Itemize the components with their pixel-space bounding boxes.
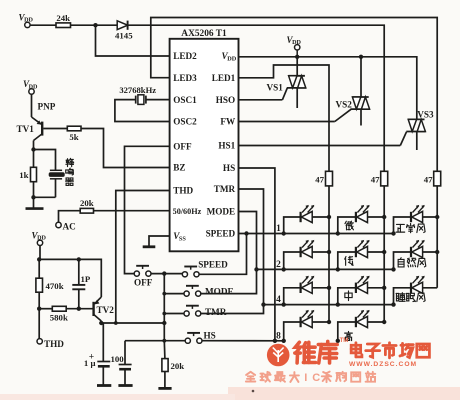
LED row 1 column 2 [338,217,384,234]
svg-text:SS: SS [179,235,186,242]
label 蜂鸣器 (vertical) [66,158,74,166]
wire TV2 collector to switch common bus [101,322,164,324]
pushbutton switch TMR [184,311,189,316]
capacitor 1u electrolytic [101,322,103,324]
svg-text:SPEED: SPEED [198,260,228,270]
svg-text:MODE: MODE [207,207,236,217]
wire column 3 down [436,186,438,288]
resistor 20k (AC input) [80,208,93,213]
watermark logo circle [267,344,290,367]
svg-text:SPEED: SPEED [206,229,236,239]
resistor 580k [39,308,52,310]
svg-text:47: 47 [315,174,324,184]
label 高 [345,331,353,340]
node A junction [93,23,97,27]
svg-text:TV2: TV2 [97,305,115,315]
LED row 1 column 3 [394,217,438,234]
node VS1 anode junction [295,55,299,59]
svg-text:FW: FW [220,117,236,127]
resistor 20k (pulldown) [163,341,166,359]
node 470k/580k junction [37,307,41,311]
ground (VSS pin) [149,236,170,246]
wire diode cathode to LED column 2 (node B) [128,25,385,171]
terminal AC [56,222,61,227]
svg-text:50/60Hz: 50/60Hz [173,207,202,216]
svg-text:WWW.DZSC.COM: WWW.DZSC.COM [349,361,417,368]
LED row 2 column 1 [284,252,329,269]
svg-text:LED2: LED2 [173,51,197,61]
node OFF-right / common bus junction [151,273,182,275]
power terminal VDD top-left [25,22,30,27]
power terminal VDD (buzzer section) [29,89,34,94]
svg-text:PNP: PNP [38,102,56,112]
wire column 1 down [328,186,330,322]
svg-text:47: 47 [424,174,433,184]
capacitor 100 [124,341,126,365]
ground (20k) [158,387,171,390]
wire TV1 base to 5k [43,128,67,130]
watermark text 全球最大IC采购网站 [246,372,255,382]
node TV2 collector junction [99,321,103,325]
wire TMR switch to row 4 node [201,305,264,314]
svg-text:I C: I C [304,372,321,384]
svg-text:DD: DD [29,84,38,90]
ground (100 cap) [118,384,132,387]
ground (buzzer) [33,197,35,208]
svg-text:VS1: VS1 [267,83,284,93]
LED row 4 column 3 [394,288,438,305]
triac VS1 [296,57,298,76]
svg-text:HS: HS [204,330,216,340]
svg-text:47: 47 [371,174,380,184]
LED row 4 column 1 [284,288,329,305]
svg-text:THD: THD [44,339,64,349]
svg-text:DD: DD [37,236,46,242]
svg-text:TMR: TMR [205,307,227,317]
wire IC VDD pin to rail [239,56,417,58]
svg-text:24k: 24k [56,13,70,23]
svg-text:4145: 4145 [115,31,133,41]
wire IC HSO pin to VS1 gate [239,99,283,101]
IC U1 AX5206 T1 body [170,39,239,252]
resistor 470k [38,259,40,278]
svg-text:AX5206 T1: AX5206 T1 [181,29,227,39]
node row4/TMR junction [261,302,265,306]
ground (1u cap) [97,384,111,387]
svg-text:LED3: LED3 [173,73,197,83]
wire IC HS pin down [239,168,275,341]
power terminal VDD (rail) [295,45,300,50]
svg-text:580k: 580k [50,313,68,323]
resistor 47 (column 2) [381,171,388,186]
wire HS switch into row 8 [202,340,284,342]
LED row 2 column 2 [338,252,384,269]
node TV1 collector junction [31,147,35,151]
wire row 4 [284,304,394,306]
svg-text:OSC1: OSC1 [173,95,197,105]
svg-text:2: 2 [276,260,281,270]
buzzer (piezo) [50,169,62,171]
node row8/HS junction [273,339,277,343]
svg-text:20k: 20k [80,198,94,208]
label 微 [345,221,353,230]
wire 5k to IC pin BZ [81,129,170,168]
LED row 2 column 3 [394,252,438,269]
wire MODE switch to row 2 node [201,269,257,293]
wire IC SPEED pin to row 1 [239,233,284,235]
svg-text:8: 8 [276,331,281,341]
wire row 4 [264,304,284,306]
svg-text:AC: AC [63,222,76,232]
svg-text:HSO: HSO [216,95,235,105]
switch common bus [163,274,165,341]
resistor 24k [56,23,71,28]
svg-text:OFF: OFF [134,277,153,287]
wire VDD to 24k resistor [30,24,56,26]
svg-text:BZ: BZ [173,163,185,173]
svg-text:TM: TM [340,337,349,344]
scan speck [252,390,255,393]
triac VS3 [408,118,425,120]
svg-text:LED1: LED1 [212,73,236,83]
svg-text:1k: 1k [19,170,28,180]
svg-text:MODE: MODE [205,287,234,297]
wire IC FW pin to VS2 gate [239,121,335,123]
wire IC THD pin down to TV2 collector net [116,191,170,324]
capacitor 1P [78,259,80,284]
wire IC TMR pin down [239,189,264,305]
svg-text:TMR: TMR [214,184,236,194]
transistor TV1 PNP [41,122,43,136]
svg-text:100: 100 [111,354,125,364]
label 自然风 [398,258,404,267]
LED row 1 column 1 [284,217,329,234]
wire node C rail to TV2 emitter [39,259,101,297]
triac VS2 [360,57,362,97]
svg-text:1: 1 [276,224,281,234]
resistor 47 (column 3) [434,171,441,186]
svg-text:1 μ: 1 μ [84,358,96,368]
svg-text:DD: DD [227,55,237,62]
node 1P cap top junction [77,257,81,261]
wire IC LED1 over VS1 to LED column 1 [239,65,330,171]
wire row 1 [284,233,394,235]
pushbutton switch SPEED [182,272,187,277]
pushbutton switch MODE [184,291,189,296]
wire SPEED switch to row 1 node [199,234,246,275]
resistor 1k [33,150,35,168]
svg-text:VS3: VS3 [417,110,434,120]
wire VDD to TV1 emitter [31,94,33,117]
resistor 5k [67,126,81,131]
wire collector junction to buzzer [34,150,56,171]
transistor TV2 PNP [92,302,94,316]
pushbutton switch OFF [134,271,139,276]
terminal THD [37,339,42,344]
label 正常风 [396,224,405,232]
watermark text 电子市场网 [351,343,362,357]
wire column 2 down [383,186,385,322]
svg-text:5k: 5k [69,132,78,142]
label 低 [345,256,353,265]
node row2/MODE junction [254,267,258,271]
top rail wire from LED3 to LED column 3 [151,18,437,172]
wire row 2 [284,268,394,270]
svg-text:4: 4 [276,295,281,305]
wire 50/60Hz from AC 20k to IC [94,210,170,212]
wire VDD down to node C [39,246,41,260]
wire THD terminal [38,309,40,339]
wire rail down to VS3 [415,57,418,120]
wire crystal to OSC2 [115,100,170,122]
power terminal VDD (THD section) [37,240,42,245]
svg-text:20k: 20k [171,361,185,371]
LED row 4 column 2 [338,288,384,305]
resistor 47 (column 1) [326,171,333,186]
node row1/SPEED junction [244,231,248,235]
svg-text:DD: DD [24,18,33,24]
svg-text:1P: 1P [81,274,91,284]
wire IC HS1 pin to VS3 gate [239,145,401,147]
wire node A down to IC pin LED2 [96,25,170,56]
LED row 8 column 1 [284,322,329,341]
svg-text:HS1: HS1 [218,141,235,151]
wire IC MODE pin down [239,212,257,270]
wire AC to 20k [59,211,81,223]
watermark text 维库 [295,342,316,363]
wire 100 cap to HS switch line [125,340,188,342]
svg-text:OSC2: OSC2 [173,117,197,127]
label 睡眠风 [396,293,405,302]
wire IC OFF pin to OFF switch [125,146,170,273]
svg-text:470k: 470k [46,281,64,291]
wire row 2 [257,268,284,270]
svg-text:OFF: OFF [173,142,192,152]
svg-text:TV1: TV1 [17,124,35,134]
svg-text:HS: HS [223,163,235,173]
wire 24k to node A [71,24,96,26]
svg-text:DD: DD [292,40,301,46]
svg-text:VS2: VS2 [336,99,353,109]
wire node A to diode 4145 [96,24,118,26]
label 中 [345,291,352,301]
svg-text:THD: THD [173,186,193,196]
LED row 8 column 2 [338,322,384,341]
pushbutton switch HS [185,338,190,343]
node VS2 anode junction [359,55,363,59]
node C junction [37,257,41,261]
node 1P bottom junction [77,307,81,311]
diode 4145 [117,21,127,30]
svg-text:32768kHz: 32768kHz [119,85,156,95]
node buzzer/1k bottom junction [31,195,35,199]
